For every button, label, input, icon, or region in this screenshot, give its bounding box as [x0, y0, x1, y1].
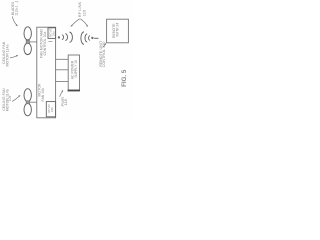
svg-text:SUPPLY 16: SUPPLY 16	[74, 60, 78, 78]
leader arrow to fan 2	[12, 95, 20, 101]
wire 3 to power box	[56, 80, 69, 82]
fan shaft 2 (wire)	[30, 101, 37, 103]
fan blade 1 (propeller bottom ellipse)	[24, 43, 31, 54]
label 118 (below power box)	[60, 97, 68, 106]
power unit box B2	[68, 55, 79, 90]
receiver box R1	[48, 28, 56, 39]
label 114a (mid-left)	[2, 41, 9, 66]
fan blade 2 (propeller top ellipse)	[24, 89, 31, 102]
receiver box R2	[46, 102, 55, 117]
label 112a (top-left)	[11, 1, 19, 16]
fan hub 1	[26, 40, 29, 43]
RF waves left group (from receiver)	[58, 32, 72, 42]
svg-text:116: 116	[81, 9, 86, 16]
fan unit box B1	[37, 27, 56, 118]
svg-text:118: 118	[63, 98, 68, 105]
fan shaft 1 (wire)	[30, 41, 37, 43]
svg-text:18a: 18a	[51, 31, 55, 36]
svg-text:XMTR 24: XMTR 24	[116, 23, 120, 37]
fan blade 1 (propeller top ellipse)	[24, 27, 31, 40]
fan blade 2 (propeller bottom ellipse)	[24, 103, 31, 115]
label 120 (below-left of remote box)	[99, 40, 106, 67]
leader arrow to power box corner	[60, 90, 64, 97]
label 114b (bottom-left)	[2, 88, 12, 111]
leader arrow to fan 1 lower blade	[10, 55, 18, 58]
RF waves right group (from remote)	[81, 32, 99, 44]
svg-text:CONTROL 10a: CONTROL 10a	[43, 32, 47, 56]
label RF link 116 (top, with fork)	[77, 2, 86, 18]
fork leader with two arrows	[71, 19, 89, 27]
svg-text:10b: 10b	[8, 96, 12, 102]
fan hub 2	[26, 101, 29, 104]
svg-text:FAN 10b: FAN 10b	[41, 88, 45, 102]
wire 1 to power box	[56, 58, 69, 60]
remote transmitter box B3	[107, 19, 129, 43]
leader arrow to fan 1	[12, 16, 17, 26]
svg-text:MOTOR 114a: MOTOR 114a	[5, 44, 9, 66]
leader arrow to remote box corner	[103, 43, 106, 48]
svg-text:112a-1: 112a-1	[15, 5, 19, 15]
svg-text:FIG. 5: FIG. 5	[121, 69, 128, 87]
svg-text:18b: 18b	[50, 107, 54, 112]
wire 2 to power box	[56, 69, 69, 71]
